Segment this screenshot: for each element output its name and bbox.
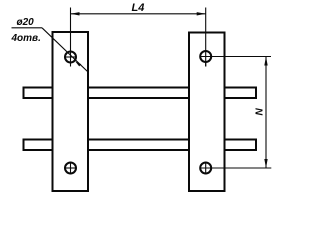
tie bar 1 (upper cross bar with left/right stubs) xyxy=(24,88,257,99)
hole bottom-right xyxy=(200,163,211,174)
svg-text:L4: L4 xyxy=(132,2,145,14)
extension line N top (centerline through top-right hole) xyxy=(200,56,272,58)
svg-text:4отв.: 4отв. xyxy=(11,33,41,44)
arrow L4 right xyxy=(197,12,206,15)
centerline cross hole top-left (horizontal arm) xyxy=(64,56,77,58)
svg-text:N: N xyxy=(255,108,266,116)
label diameter ø20 xyxy=(17,17,35,28)
dimension line N xyxy=(265,57,267,169)
tie bar 2 (lower cross bar with left/right stubs) xyxy=(24,140,257,151)
left plate xyxy=(53,32,89,191)
leader arrowhead on hole edge xyxy=(75,61,81,66)
extension line L4 left (through top-left hole) xyxy=(70,8,72,67)
hole bottom-left xyxy=(65,163,76,174)
leader shelf line xyxy=(12,27,43,29)
dimension line L4 xyxy=(71,13,206,15)
leader diagonal line xyxy=(42,28,88,72)
centerline cross hole top-right (vertical arm below) xyxy=(205,62,207,67)
right plate xyxy=(189,33,225,192)
centerline cross hole bottom-right (vertical arm) xyxy=(205,162,207,175)
centerline cross hole bottom-left xyxy=(64,162,77,175)
svg-text:ø20: ø20 xyxy=(17,17,35,28)
arrow L4 left xyxy=(71,12,80,15)
arrow N bottom xyxy=(264,159,267,168)
extension line L4 right (through top-right hole) xyxy=(205,8,207,67)
arrow N top xyxy=(264,57,267,66)
label N (rotated) xyxy=(255,108,266,116)
label 4 holes (4отв.) xyxy=(11,33,41,44)
extension line N bottom (centerline through bottom-right hole) xyxy=(200,167,272,169)
hole top-left xyxy=(65,52,76,63)
label L4 xyxy=(132,2,145,14)
hole top-right xyxy=(200,51,211,62)
